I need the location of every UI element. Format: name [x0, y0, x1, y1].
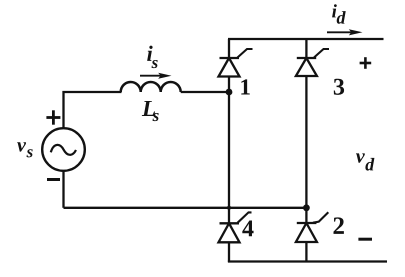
plus sign (source top) — [46, 110, 60, 124]
label thyristor 3 — [334, 79, 344, 95]
label is — [147, 46, 158, 69]
label i_d — [332, 4, 346, 24]
wire: middle AC return wire — [64, 207, 307, 209]
current arrow id — [327, 29, 363, 35]
wire: source bottom lead — [62, 171, 64, 208]
node 1 junction dot — [226, 89, 233, 96]
node junction dot (AC terminal 2) — [303, 204, 310, 211]
voltage source vs (AC) — [42, 128, 85, 171]
wire: thyristor 4 anode lead to bottom bus — [228, 242, 230, 262]
minus sign (vd negative terminal) — [358, 238, 372, 241]
label thyristor 2 — [334, 217, 344, 234]
crossover ink blob at (229,208) — [227, 206, 231, 210]
thyristor 2 — [296, 212, 328, 242]
wire: left column node1 down to thyristor 4 (crossover at middle wire) — [228, 92, 230, 223]
label node 1 — [241, 79, 249, 94]
wire: source top lead — [64, 92, 122, 129]
thyristor 1 — [219, 49, 253, 77]
sine wave inside source — [51, 145, 76, 155]
label thyristor 4 — [242, 221, 253, 237]
inductor Ls — [121, 82, 181, 92]
wire: inductor to node 1 — [181, 91, 229, 93]
wire: thyristor 2 anode lead to bottom bus — [305, 242, 307, 262]
wire: right column thyristor 3 anode down to thyristor 2 — [305, 76, 307, 223]
plus sign (vd positive terminal) — [360, 57, 372, 69]
current arrow is — [140, 73, 172, 79]
minus sign (source bottom) — [47, 178, 60, 181]
wire: thyristor 1 anode lead to node 1 — [228, 77, 230, 93]
label vs — [17, 142, 32, 157]
wire: thyristor 3 cathode lead — [305, 39, 307, 58]
wire: top DC+ bus — [228, 38, 384, 40]
thyristor 3 — [296, 49, 329, 76]
thyristor 4 — [219, 212, 252, 242]
wire: bottom DC- bus — [228, 260, 387, 262]
label Ls — [142, 101, 159, 121]
wire: thyristor 1 cathode lead — [228, 39, 230, 58]
label vd — [356, 153, 374, 170]
